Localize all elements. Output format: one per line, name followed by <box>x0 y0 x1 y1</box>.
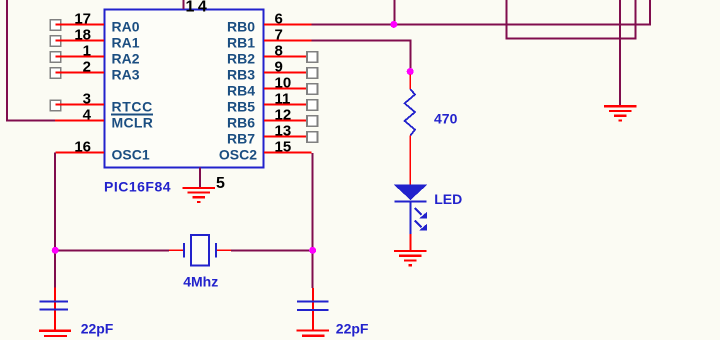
svg-text:RA3: RA3 <box>112 67 140 83</box>
pin stub RB0 (6) <box>264 24 312 26</box>
wire: U-shaped net at top right <box>507 0 636 39</box>
wire: RB0 net horizontal (pin 6) with right riser <box>312 0 651 25</box>
svg-text:RB1: RB1 <box>227 35 255 51</box>
pin stub RB4 (10) <box>264 88 307 90</box>
svg-text:4Mhz: 4Mhz <box>183 274 218 290</box>
svg-text:18: 18 <box>74 26 91 43</box>
wire: crystal net horizontal left maroon part <box>55 249 169 251</box>
svg-text:RB6: RB6 <box>227 115 255 131</box>
svg-text:15: 15 <box>275 138 292 155</box>
wire: RB0 net riser to top edge <box>393 0 395 25</box>
crystal X1 body <box>191 235 209 266</box>
node: junction above resistor <box>407 68 414 75</box>
pin stub RB1 (7) <box>264 40 312 42</box>
svg-text:13: 13 <box>275 122 292 139</box>
wire: crystal net horizontal right maroon part <box>231 249 312 251</box>
svg-text:1: 1 <box>83 42 91 59</box>
pin stub RB5 (11) <box>264 104 307 106</box>
crystal X1 left red stub <box>169 249 184 251</box>
wire: OSC2 net down right side to crystal and C2 <box>312 153 314 288</box>
pin stub RB3 (9) <box>264 72 307 74</box>
svg-text:RB5: RB5 <box>227 99 255 115</box>
pin stub RA2 (1) <box>56 56 105 58</box>
svg-text:RB7: RB7 <box>227 131 255 147</box>
svg-text:RB0: RB0 <box>227 19 255 35</box>
capacitor C1 bottom plate <box>40 308 69 310</box>
resistor R1 zigzag <box>405 89 415 135</box>
crystal X1 right red stub <box>217 249 231 251</box>
svg-text:OSC2: OSC2 <box>219 147 257 163</box>
unconnected square pin 8 <box>307 52 318 63</box>
svg-text:470: 470 <box>434 110 458 126</box>
svg-text:8: 8 <box>275 42 283 59</box>
ground below C1 <box>39 330 71 337</box>
svg-text:RA2: RA2 <box>112 51 140 67</box>
node: junction at OSC2/C2/crystal <box>309 247 316 254</box>
unconnected square pin 18 <box>50 36 61 47</box>
pin stub RB7 (13) <box>264 136 307 138</box>
overbar line between RTCC and MCLR <box>111 114 153 116</box>
pin stub RTCC (3) <box>56 104 105 106</box>
svg-text:11: 11 <box>275 90 291 107</box>
wire: OSC1 net down to crystal and C1 <box>54 153 56 288</box>
LED D1 cathode lead blue part <box>409 203 411 235</box>
unconnected square pin 12 <box>307 116 318 127</box>
capacitor C2 top plate <box>297 300 329 302</box>
node: junction at OSC1/C1/crystal <box>52 247 59 254</box>
svg-text:RA0: RA0 <box>112 19 140 35</box>
capacitor C1 top plate <box>40 300 69 302</box>
LED D1 triangle <box>394 185 428 200</box>
svg-text:4: 4 <box>83 106 92 123</box>
svg-text:9: 9 <box>275 58 283 75</box>
svg-text:5: 5 <box>216 175 225 192</box>
unconnected square pin 1 <box>50 52 61 63</box>
svg-text:RB2: RB2 <box>227 51 255 67</box>
svg-text:RB3: RB3 <box>227 67 255 83</box>
svg-text:22pF: 22pF <box>336 320 369 336</box>
pin stub RA3 (2) <box>56 72 105 74</box>
svg-text:16: 16 <box>74 138 91 155</box>
wire: ground net vertical at far right <box>619 0 621 105</box>
capacitor C2 lead <box>312 288 314 330</box>
svg-text:3: 3 <box>83 90 91 107</box>
pin stub RA0 (17) <box>56 24 105 26</box>
svg-text:PIC16F84: PIC16F84 <box>104 179 171 195</box>
pin stub RA1 (18) <box>56 40 105 42</box>
pin stub OSC2 (15) <box>264 152 312 154</box>
svg-text:6: 6 <box>275 10 283 27</box>
pin stub RB6 (12) <box>264 120 307 122</box>
svg-text:22pF: 22pF <box>81 320 114 336</box>
node: junction on RB0 net <box>390 21 397 28</box>
unconnected square pin 9 <box>307 68 318 79</box>
svg-text:MCLR: MCLR <box>112 115 154 131</box>
LED D1 cathode bar <box>395 200 427 202</box>
pin stub MCLR (4) red part <box>55 120 104 122</box>
LED D1 arrow 1 <box>415 208 427 218</box>
svg-text:RB4: RB4 <box>227 83 255 99</box>
pin 14 wire at top of IC <box>183 0 185 9</box>
svg-text:2: 2 <box>83 58 91 75</box>
LED D1 lead to ground red part <box>409 234 411 250</box>
resistor R1 top lead <box>409 75 411 90</box>
wire: RB1 net (pin 7) to resistor <box>312 41 411 69</box>
unconnected square pin 2 <box>50 68 61 79</box>
resistor R1 bottom lead <box>409 136 411 185</box>
svg-text:10: 10 <box>275 74 292 91</box>
IC U1 PIC16F84 body <box>105 10 264 168</box>
LED D1 arrow 2 <box>415 221 427 231</box>
unconnected square pin 17 <box>50 20 61 31</box>
crystal X1 left plate <box>183 243 185 257</box>
pin 5 wire at bottom of IC <box>199 168 201 187</box>
svg-text:12: 12 <box>275 106 292 123</box>
ground at IC pin 5 <box>183 187 215 203</box>
ground below LED <box>394 250 426 266</box>
wire: MCLR net from top edge down left side to pin 4 <box>7 0 55 121</box>
svg-text:RA1: RA1 <box>112 35 140 51</box>
svg-text:OSC1: OSC1 <box>112 147 150 163</box>
capacitor C2 bottom plate <box>297 309 329 311</box>
svg-text:RTCC: RTCC <box>112 99 153 115</box>
svg-text:14: 14 <box>186 0 211 16</box>
unconnected square pin 3 <box>50 100 61 111</box>
svg-text:17: 17 <box>74 10 91 27</box>
unconnected square pin 13 <box>307 132 318 143</box>
svg-text:7: 7 <box>275 26 283 43</box>
unconnected square pin 11 <box>307 100 318 111</box>
ground at far right <box>604 105 636 121</box>
pin stub OSC1 (16) <box>56 152 105 154</box>
svg-text:LED: LED <box>434 191 462 207</box>
pin stub RB2 (8) <box>264 56 307 58</box>
crystal X1 right plate <box>215 243 217 257</box>
capacitor C1 lead <box>54 288 56 330</box>
unconnected square pin 10 <box>307 84 318 95</box>
ground below C2 <box>297 330 329 337</box>
